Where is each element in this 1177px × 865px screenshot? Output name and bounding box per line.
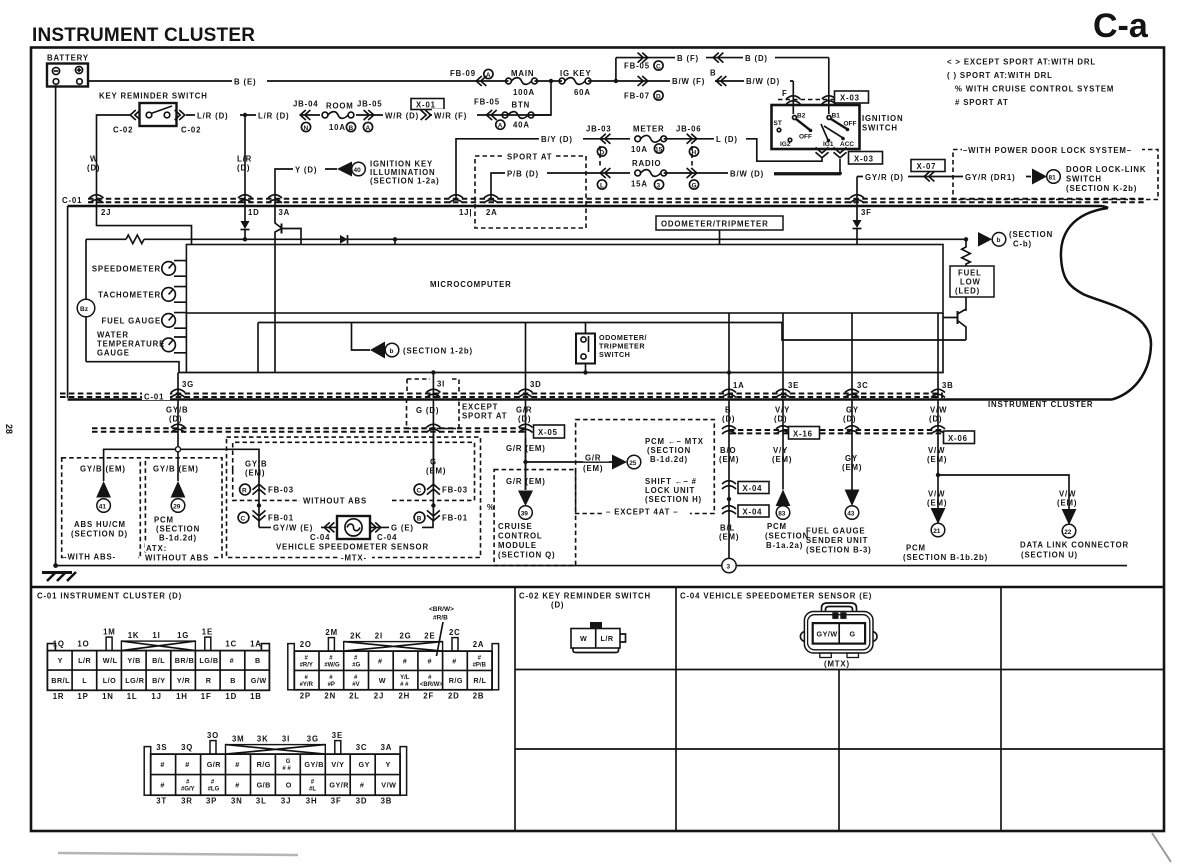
wire lower band bottom bbox=[179, 313, 943, 373]
arrow 22 down bbox=[1062, 509, 1077, 525]
svg-text:2O: 2O bbox=[300, 640, 312, 649]
svg-text:G (D): G (D) bbox=[416, 406, 439, 415]
svg-text:G: G bbox=[286, 759, 291, 765]
svg-text:(EM): (EM) bbox=[772, 455, 792, 464]
gauge box bottom bbox=[86, 362, 179, 373]
svg-text:LOW: LOW bbox=[960, 278, 981, 287]
connector circle N bbox=[301, 122, 310, 131]
svg-text:(SECTION: (SECTION bbox=[1009, 230, 1053, 239]
wire 1A drop bbox=[728, 313, 730, 398]
chevron pin 1D bbox=[238, 195, 252, 203]
svg-text:3: 3 bbox=[727, 564, 731, 571]
svg-text:C-04 VEHICLE SPEEDOMETER SENSO: C-04 VEHICLE SPEEDOMETER SENSOR (E) bbox=[680, 592, 872, 601]
svg-text:81: 81 bbox=[1049, 175, 1057, 182]
svg-text:R: R bbox=[242, 488, 247, 495]
svg-text:3P: 3P bbox=[206, 797, 217, 806]
svg-text:(SECTION K-2b): (SECTION K-2b) bbox=[1066, 184, 1137, 193]
svg-text:METER: METER bbox=[633, 125, 665, 134]
fuse RADIO 15A bbox=[635, 170, 667, 177]
svg-text:B/Y (D): B/Y (D) bbox=[541, 135, 573, 144]
svg-text:(SECTION B-1b.2b): (SECTION B-1b.2b) bbox=[903, 553, 988, 562]
arrow 39 cruise bbox=[518, 491, 533, 507]
svg-text:(D): (D) bbox=[843, 415, 856, 424]
arrow 25 bbox=[612, 455, 627, 470]
svg-text:SWITCH: SWITCH bbox=[862, 124, 898, 133]
svg-text:D: D bbox=[600, 150, 605, 157]
svg-text:#V: #V bbox=[352, 682, 359, 688]
junction dot row split bbox=[614, 79, 618, 83]
svg-text:15: 15 bbox=[655, 147, 663, 154]
svg-text:FUEL: FUEL bbox=[958, 269, 982, 278]
svg-text:G: G bbox=[692, 183, 697, 190]
connector FB-07 chevron bbox=[638, 76, 648, 86]
arrow 41 ABS bbox=[96, 481, 111, 498]
wire 3I drop bbox=[432, 373, 434, 399]
wire G em vertical bbox=[432, 434, 434, 521]
svg-text:# SPORT AT: # SPORT AT bbox=[955, 98, 1009, 107]
wire L/R(D) drop to pin 1D bbox=[244, 115, 246, 206]
svg-text:B: B bbox=[710, 69, 716, 78]
microcomputer left edge extension bbox=[185, 313, 187, 373]
svg-text:B/W (D): B/W (D) bbox=[746, 77, 780, 86]
svg-text:W/R (F): W/R (F) bbox=[434, 112, 467, 121]
svg-text:V/W: V/W bbox=[928, 446, 945, 455]
wire 3D drop bbox=[525, 323, 527, 399]
svg-text:(EM): (EM) bbox=[583, 464, 603, 473]
svg-text:(D): (D) bbox=[551, 601, 564, 610]
wire B vertical bbox=[728, 400, 730, 559]
svg-text:1E: 1E bbox=[202, 628, 213, 637]
svg-text:B: B bbox=[230, 676, 236, 685]
svg-text:3J: 3J bbox=[281, 797, 291, 806]
svg-text:3A: 3A bbox=[279, 208, 291, 217]
wire IG KEY out to riser bbox=[588, 80, 616, 82]
X-03 box lower bbox=[849, 152, 883, 165]
wire meter fuse to L(D) bbox=[664, 138, 753, 140]
main feed wire y239 bbox=[192, 238, 967, 240]
svg-text:2H: 2H bbox=[399, 691, 411, 700]
chevron FB-03 left bbox=[253, 484, 266, 494]
connector chevron radio right bbox=[687, 168, 697, 178]
connector circle H bbox=[689, 147, 698, 156]
svg-text:L/O: L/O bbox=[103, 676, 116, 685]
connector block C-01 row2 (2O-2A) bbox=[288, 606, 499, 700]
wire ground bus bbox=[56, 565, 1127, 567]
svg-text:G/W: G/W bbox=[251, 676, 267, 685]
svg-text:1M: 1M bbox=[103, 628, 116, 637]
svg-text:#R/B: #R/B bbox=[433, 615, 448, 622]
scan streak bottom left bbox=[58, 853, 298, 855]
svg-text:(SECTION H): (SECTION H) bbox=[645, 495, 702, 504]
svg-text:P/B (D): P/B (D) bbox=[507, 170, 539, 179]
svg-text:10A: 10A bbox=[631, 145, 648, 154]
svg-text:–WITH POWER DOOR LOCK SYSTEM–: –WITH POWER DOOR LOCK SYSTEM– bbox=[963, 146, 1132, 155]
connector FB-09 chevron bbox=[476, 76, 486, 86]
fuel gauge bbox=[162, 314, 176, 328]
svg-text:L (D): L (D) bbox=[716, 135, 738, 144]
svg-text:1D: 1D bbox=[225, 692, 237, 701]
svg-text:CRUISE: CRUISE bbox=[498, 522, 533, 531]
svg-text:3B: 3B bbox=[942, 381, 954, 390]
svg-text:OFF: OFF bbox=[844, 121, 857, 128]
svg-text:GY/B: GY/B bbox=[245, 460, 267, 469]
svg-text:GY: GY bbox=[359, 760, 370, 769]
chevron FB-01 right bbox=[427, 510, 440, 520]
svg-text:15A: 15A bbox=[631, 180, 648, 189]
table column line C02/C04 bbox=[675, 587, 677, 831]
connector FB-05 chevron bbox=[487, 110, 497, 120]
svg-text:KEY REMINDER SWITCH: KEY REMINDER SWITCH bbox=[99, 92, 208, 101]
chevron em GY bbox=[845, 426, 859, 434]
wire V/Y vertical bbox=[782, 400, 784, 490]
wire B/W row bbox=[616, 80, 793, 82]
svg-text:(SECTION Q): (SECTION Q) bbox=[498, 551, 555, 560]
svg-text:# #: # # bbox=[400, 682, 409, 688]
table column line mid lower rows bbox=[838, 670, 840, 832]
cluster bottom edge bbox=[68, 398, 1112, 401]
svg-text:SENDER UNIT: SENDER UNIT bbox=[806, 536, 868, 545]
svg-text:#P: #P bbox=[328, 682, 335, 688]
svg-text:#: # bbox=[235, 781, 240, 790]
X-03 dashed boundary top bbox=[778, 99, 834, 101]
C-02 connector drawing bbox=[571, 623, 626, 653]
junction dot B bbox=[727, 497, 731, 501]
chevron B1 into switch bbox=[822, 96, 836, 104]
table divider row2/row3 bbox=[515, 748, 1164, 750]
wire LED to transistor bbox=[965, 297, 967, 311]
junction dot stub micro bbox=[393, 237, 397, 241]
door lock dashed box bbox=[953, 150, 1158, 200]
svg-text:X-16: X-16 bbox=[793, 430, 813, 439]
junction ring GY/B bbox=[175, 447, 180, 452]
svg-text:B (F): B (F) bbox=[677, 54, 699, 63]
svg-text:1D: 1D bbox=[248, 208, 260, 217]
svg-text:2M: 2M bbox=[325, 628, 338, 637]
wire 3F diode bbox=[856, 206, 858, 220]
label C-01 bottom bbox=[142, 391, 170, 400]
svg-text:BR/B: BR/B bbox=[175, 656, 195, 665]
connector circle C right bbox=[414, 484, 425, 495]
dashed box WITHOUT ABS inner bbox=[233, 442, 475, 470]
cruise dashed box bbox=[494, 470, 575, 566]
svg-text:(D): (D) bbox=[722, 415, 735, 424]
svg-text:#LG: #LG bbox=[208, 787, 220, 793]
svg-text:Y/R: Y/R bbox=[177, 676, 191, 685]
svg-text:EXCEPT: EXCEPT bbox=[462, 403, 498, 412]
svg-text:-MTX-: -MTX- bbox=[341, 554, 367, 563]
svg-text:B/L: B/L bbox=[720, 524, 735, 533]
svg-text:W: W bbox=[580, 634, 587, 643]
cluster top edge bbox=[68, 206, 1108, 208]
svg-text:3O: 3O bbox=[207, 731, 219, 740]
svg-text:3I: 3I bbox=[437, 380, 445, 389]
svg-text:GY: GY bbox=[846, 406, 859, 415]
dashed box WITH ABS bbox=[62, 458, 141, 558]
svg-text:#: # bbox=[428, 657, 433, 666]
svg-text:X-03: X-03 bbox=[854, 155, 874, 164]
chevron em 3I bbox=[426, 424, 440, 432]
connector circle R bbox=[240, 484, 251, 495]
FUEL LOW (LED) box bbox=[950, 266, 994, 297]
svg-text:2L: 2L bbox=[349, 691, 360, 700]
scan streak bottom right bbox=[1152, 833, 1171, 862]
svg-text:SPORT AT: SPORT AT bbox=[507, 153, 552, 162]
svg-text:3: 3 bbox=[657, 183, 661, 190]
svg-text:3B: 3B bbox=[381, 797, 393, 806]
junction dot fb right bbox=[431, 503, 435, 507]
svg-text:Y: Y bbox=[58, 656, 63, 665]
connector C-04 chevron left bbox=[324, 522, 334, 532]
ground symbol bbox=[42, 571, 72, 574]
fuse ROOM 10A bbox=[320, 110, 356, 120]
wire B/W(D) radio out to switch bbox=[762, 159, 841, 175]
svg-text:GY/B: GY/B bbox=[304, 760, 324, 769]
wire pcm drop bbox=[177, 452, 179, 481]
svg-text:BATTERY: BATTERY bbox=[47, 54, 89, 63]
pin label 3I in dashed box bbox=[407, 379, 459, 393]
svg-text:1F: 1F bbox=[201, 692, 212, 701]
svg-text:%: % bbox=[487, 503, 495, 512]
svg-text:(MTX): (MTX) bbox=[824, 660, 850, 669]
svg-text:B: B bbox=[255, 656, 261, 665]
svg-text:ODOMETER/TRIPMETER: ODOMETER/TRIPMETER bbox=[661, 220, 769, 229]
svg-text:2A: 2A bbox=[473, 640, 485, 649]
svg-text:3E: 3E bbox=[332, 731, 343, 740]
svg-text:B2: B2 bbox=[797, 113, 806, 120]
svg-text:GY/B (EM): GY/B (EM) bbox=[80, 465, 126, 474]
chevron em 3G bbox=[171, 424, 185, 432]
svg-text:B/W (D): B/W (D) bbox=[730, 170, 764, 179]
svg-text:1C: 1C bbox=[225, 640, 237, 649]
connector circle B right bbox=[414, 512, 425, 523]
svg-text:WITHOUT ABS: WITHOUT ABS bbox=[145, 554, 209, 563]
svg-text:1J: 1J bbox=[151, 692, 161, 701]
connector circle 15 bbox=[654, 144, 663, 153]
svg-text:3L: 3L bbox=[256, 797, 267, 806]
connector X-01 chevron bbox=[421, 110, 431, 120]
em bus left segment bbox=[92, 427, 526, 429]
SPORT AT dashed box bbox=[475, 156, 586, 228]
svg-text:BTN: BTN bbox=[512, 101, 531, 110]
svg-text:IGNITION: IGNITION bbox=[862, 114, 903, 123]
connector circle A FB-09 bbox=[484, 69, 493, 78]
svg-text:1A: 1A bbox=[733, 381, 745, 390]
svg-text:GY/R (DR1): GY/R (DR1) bbox=[965, 173, 1016, 182]
switch contacts bbox=[146, 112, 152, 118]
svg-text:#: # bbox=[378, 657, 383, 666]
dashed box ATX WITHOUT ABS bbox=[145, 458, 222, 558]
svg-text:40A: 40A bbox=[513, 121, 530, 130]
speedometer gauge bbox=[162, 262, 176, 276]
junction dot 3I bbox=[431, 370, 435, 374]
svg-text:G (E): G (E) bbox=[391, 524, 414, 533]
arrow 43 down bbox=[845, 490, 860, 507]
svg-text:GY: GY bbox=[845, 454, 858, 463]
chevron pin 1A bbox=[722, 389, 736, 397]
wire L/R(D) row from switch to BTN fuse riser bbox=[186, 114, 550, 116]
chevron pin 3G bbox=[171, 389, 185, 397]
svg-text:3T: 3T bbox=[156, 797, 167, 806]
svg-text:MODULE: MODULE bbox=[498, 541, 537, 550]
em bus right segment bbox=[729, 429, 788, 431]
svg-text:SPORT AT: SPORT AT bbox=[462, 412, 507, 421]
svg-text:(EM): (EM) bbox=[927, 455, 947, 464]
wire BTN riser to main feed bbox=[534, 81, 551, 115]
svg-text:1G: 1G bbox=[177, 631, 189, 640]
svg-text:2B: 2B bbox=[473, 691, 485, 700]
wire G/R to shift lock arrow bbox=[526, 461, 613, 463]
svg-text:#: # bbox=[160, 760, 165, 769]
svg-text:GY/W (E): GY/W (E) bbox=[273, 524, 313, 533]
X-04 box upper bbox=[738, 482, 769, 494]
wire abs header bbox=[104, 449, 259, 481]
tachometer gauge bbox=[162, 288, 176, 302]
svg-text:(D): (D) bbox=[87, 164, 100, 173]
svg-text:GY/B (EM): GY/B (EM) bbox=[153, 465, 199, 474]
svg-text:G/R (EM): G/R (EM) bbox=[506, 477, 546, 486]
connector circle B bbox=[346, 122, 355, 131]
svg-text:LG/R: LG/R bbox=[125, 676, 144, 685]
svg-text:Y (D): Y (D) bbox=[295, 166, 317, 175]
svg-text:#: # bbox=[160, 781, 165, 790]
chevron F into switch bbox=[786, 96, 800, 104]
connector JB-05 chevron bbox=[364, 110, 374, 120]
arrow b section 1-2b bbox=[352, 323, 371, 351]
X-04 box lower bbox=[738, 505, 769, 517]
svg-text:B/W (F): B/W (F) bbox=[672, 77, 705, 86]
svg-text:N: N bbox=[304, 125, 309, 132]
svg-text:41: 41 bbox=[99, 504, 107, 511]
svg-text:83: 83 bbox=[778, 511, 786, 518]
svg-text:JB-04: JB-04 bbox=[293, 100, 319, 109]
svg-text:ACC: ACC bbox=[840, 141, 854, 148]
svg-text:X-03: X-03 bbox=[840, 94, 860, 103]
svg-text:L: L bbox=[82, 676, 87, 685]
svg-text:LOCK UNIT: LOCK UNIT bbox=[645, 486, 695, 495]
arrow 81 door lock bbox=[1032, 169, 1047, 185]
circle 3 ground ring bbox=[722, 558, 736, 572]
svg-text:3K: 3K bbox=[257, 735, 269, 744]
svg-text:3R: 3R bbox=[181, 797, 193, 806]
arrow 29 PCM bbox=[171, 481, 186, 498]
svg-text:3C: 3C bbox=[356, 743, 368, 752]
dashed box EXCEPT 4AT bbox=[576, 420, 715, 514]
resistor fuel low bbox=[962, 239, 971, 266]
chevron pin 3E bbox=[776, 389, 790, 397]
svg-text:40: 40 bbox=[354, 167, 362, 174]
svg-text:(SECTION: (SECTION bbox=[765, 532, 809, 541]
svg-text:C: C bbox=[656, 64, 661, 71]
svg-text:JB-05: JB-05 bbox=[357, 100, 383, 109]
connector circle A2 bbox=[496, 120, 505, 129]
svg-text:L/R: L/R bbox=[601, 634, 614, 643]
wire riser to B(F) row bbox=[615, 58, 617, 81]
svg-text:C-02: C-02 bbox=[113, 126, 133, 135]
arrow b section C-b bbox=[978, 232, 992, 247]
svg-text:MICROCOMPUTER: MICROCOMPUTER bbox=[430, 280, 512, 289]
buzzer Bz bbox=[77, 299, 95, 317]
wire G/R vertical bbox=[525, 438, 527, 490]
svg-text:DOOR LOCK-LINK: DOOR LOCK-LINK bbox=[1066, 165, 1146, 174]
svg-text:B/L: B/L bbox=[152, 656, 165, 665]
svg-text:GY/R (D): GY/R (D) bbox=[865, 173, 904, 182]
svg-text:1L: 1L bbox=[127, 692, 138, 701]
svg-text:2I: 2I bbox=[375, 632, 383, 641]
chevron FB-03 right bbox=[427, 484, 440, 494]
wire 3A transistor bbox=[275, 206, 282, 373]
arrow 83 PCM up bbox=[776, 490, 791, 507]
chevron pin 2J bbox=[90, 195, 104, 203]
svg-text:# #: # # bbox=[282, 766, 291, 772]
wire GY/R to door lock bbox=[908, 176, 963, 178]
svg-text:L: L bbox=[600, 183, 604, 190]
svg-text:C: C bbox=[417, 488, 422, 495]
svg-text:2J: 2J bbox=[374, 691, 384, 700]
svg-text:V/W: V/W bbox=[928, 490, 945, 499]
svg-text:#: # bbox=[452, 657, 457, 666]
svg-text:#G/Y: #G/Y bbox=[181, 787, 195, 793]
svg-text:D: D bbox=[656, 94, 661, 101]
svg-text:FB-03: FB-03 bbox=[442, 486, 468, 495]
chevron pin 3I bbox=[426, 389, 440, 397]
svg-text:(EM): (EM) bbox=[927, 499, 947, 508]
svg-text:IG KEY: IG KEY bbox=[560, 69, 592, 78]
svg-text:#W/G: #W/G bbox=[324, 663, 340, 669]
svg-text:1N: 1N bbox=[102, 692, 114, 701]
table divider row1/row2 bbox=[515, 669, 1164, 671]
svg-text:3Q: 3Q bbox=[181, 743, 193, 752]
svg-text:W: W bbox=[379, 676, 386, 685]
chevron X-04 upper bbox=[722, 481, 736, 489]
wire B(D) drop to ignition switch B1 bbox=[828, 58, 830, 114]
svg-text:b: b bbox=[390, 348, 394, 355]
svg-text:JB-06: JB-06 bbox=[676, 125, 702, 134]
svg-text:3A: 3A bbox=[381, 743, 393, 752]
svg-text:2K: 2K bbox=[350, 632, 362, 641]
svg-text:3G: 3G bbox=[307, 735, 319, 744]
svg-text:% WITH CRUISE CONTROL SYSTEM: % WITH CRUISE CONTROL SYSTEM bbox=[955, 85, 1114, 94]
dashed link JB vertical left bbox=[599, 146, 601, 167]
bus dashed lines bbox=[88, 198, 1147, 200]
chevron em V/W bbox=[931, 426, 945, 434]
wire MAIN to IG KEY bbox=[535, 80, 563, 82]
svg-text:ATX:: ATX: bbox=[146, 544, 167, 553]
svg-text:GY/R: GY/R bbox=[329, 781, 349, 790]
svg-text:VEHICLE SPEEDOMETER SENSOR: VEHICLE SPEEDOMETER SENSOR bbox=[276, 543, 429, 552]
wire B/W(D) drop to ignition switch B2 bbox=[792, 81, 794, 114]
svg-text:PCM ←– MTX: PCM ←– MTX bbox=[645, 437, 704, 446]
svg-text:C-04: C-04 bbox=[310, 533, 330, 542]
wire V/W vertical bbox=[937, 400, 939, 508]
svg-text:G/B: G/B bbox=[257, 781, 271, 790]
svg-text:L/R: L/R bbox=[237, 155, 252, 164]
svg-text:2D: 2D bbox=[448, 691, 460, 700]
transistor 3A bar bbox=[281, 224, 283, 234]
ignition switch box bbox=[772, 105, 860, 149]
wire B(F)/B(D) row bbox=[616, 57, 829, 59]
svg-text:C-a: C-a bbox=[1093, 7, 1149, 45]
connector X-07 chevron bbox=[924, 172, 934, 182]
connector JB-06 chevron bbox=[687, 134, 697, 144]
svg-text:FB-05: FB-05 bbox=[624, 62, 650, 71]
svg-text:1J|: 1J| bbox=[459, 208, 472, 217]
svg-text:1A: 1A bbox=[250, 640, 262, 649]
wire GY/R(D) from switch junction bbox=[857, 177, 908, 207]
switch drop to band bbox=[585, 364, 587, 373]
key reminder switch box bbox=[140, 103, 177, 126]
svg-text:B: B bbox=[349, 125, 354, 132]
svg-text:3F: 3F bbox=[861, 208, 872, 217]
